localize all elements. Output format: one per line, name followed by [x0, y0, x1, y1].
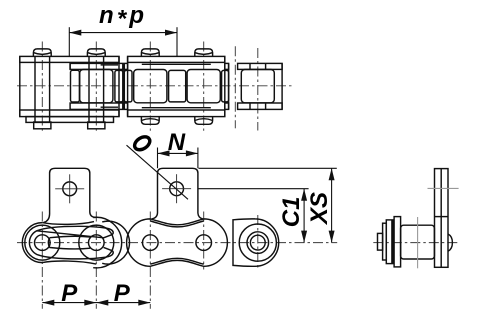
- svg-text:C1: C1: [278, 197, 305, 228]
- svg-text:N: N: [168, 129, 186, 156]
- pin 1 riveted end: [34, 122, 51, 129]
- end view roller: [401, 225, 435, 259]
- pin 1 centerline: [41, 42, 43, 131]
- pin 3 head top: [141, 49, 159, 57]
- pin 3 centerline: [149, 42, 151, 131]
- roller circle at pin 5: [239, 224, 276, 261]
- side view pin 1 centerline: [41, 212, 43, 309]
- side elevation view of chain with attachments: [17, 168, 337, 308]
- end view attachment plate strip: [435, 169, 449, 268]
- pin 1 head: [33, 49, 51, 57]
- inner link plate end arcs at pin 2: [93, 217, 121, 268]
- pin 4 head bottom: [195, 117, 213, 125]
- side view pin 3 centerline: [149, 212, 151, 309]
- end view inner plate top level line: [435, 216, 449, 218]
- cut inner link strips (top): [238, 63, 283, 69]
- pin hole at pin 5: [250, 235, 265, 250]
- end view attachment hole level line: [428, 187, 459, 189]
- dimension N line: [158, 152, 198, 154]
- pin 2 riveted end: [88, 122, 105, 129]
- bent attachment tab 1: [50, 168, 90, 214]
- roller at pin 5: [241, 70, 274, 103]
- end view chain width centerline: [417, 217, 419, 268]
- chain centerline (side view) and XS/C1 baseline: [17, 242, 337, 244]
- leader line for O: [127, 145, 189, 199]
- tab 2 left fillet: [152, 213, 158, 219]
- chain break line (top view): [234, 46, 236, 128]
- bushing gap box right of roller 4: [222, 70, 229, 102]
- inner plate strips module 1 (top): [70, 63, 123, 69]
- pin 4 centerline: [203, 42, 205, 131]
- outer link 1 end silhouette lines: [19, 56, 21, 116]
- roller at pin 3: [134, 70, 167, 103]
- connecting link cover plate: [26, 117, 114, 123]
- inner plate stub right module 2 (top/bottom): [225, 63, 229, 69]
- tab 1 left fillet: [44, 214, 50, 223]
- bushing circle at pin 5: [247, 232, 269, 254]
- bent attachment tab 2: [158, 168, 198, 213]
- side view pin 5 centerline: [257, 215, 259, 270]
- side view pin 2 centerline: [95, 212, 97, 309]
- side view pin 4 centerline: [203, 212, 205, 270]
- pin hole at pin 4: [196, 235, 212, 251]
- dimension n*p extension line left: [68, 27, 70, 56]
- pin hole at pin 1: [35, 235, 51, 251]
- dimension n*p line: [69, 32, 177, 34]
- end view pin axis centerline: [373, 242, 458, 244]
- svg-text:n*p: n*p: [99, 2, 147, 33]
- inner plate strips module 1 (bottom): [70, 103, 123, 109]
- dimension n*p extension line right: [176, 27, 178, 56]
- outer link 1 top plate bar: [20, 56, 119, 62]
- top plan view of roller chain: [17, 42, 292, 131]
- P dimension line: [42, 302, 150, 304]
- dimension N extension lines: [157, 148, 159, 169]
- end view pin left end cap: [378, 233, 383, 250]
- label O: [132, 134, 152, 152]
- end view pin right end bulge: [448, 234, 452, 251]
- svg-text:P: P: [61, 280, 78, 307]
- outer link 2 bottom plate bar: [128, 110, 225, 117]
- pin 1 body: [34, 56, 36, 122]
- connecting link plate top waist edge: [42, 222, 94, 225]
- roller circle at pin 1: [25, 225, 60, 260]
- inner plate stub left module 2 (top/bottom): [124, 63, 127, 69]
- pin hole at pin 3: [143, 235, 159, 251]
- roller at pin 4: [187, 70, 220, 103]
- inner link 2 chamfer lines along waists: [150, 221, 203, 227]
- svg-text:XS: XS: [306, 192, 333, 226]
- spring clip inner opening: [48, 236, 90, 249]
- bushing contour lines module 2: [142, 63, 211, 65]
- pin 2 body: [88, 56, 90, 122]
- spring clip of connecting link: [29, 226, 113, 259]
- pin hole at pin 2: [89, 235, 105, 251]
- XS dimension line: [331, 168, 333, 242]
- bushing gap box left of roller 3: [124, 70, 132, 102]
- outer link 1 bottom plate bar: [20, 110, 119, 117]
- end view of link with attachment: [373, 169, 458, 269]
- outer link 2 top plate bar: [128, 56, 225, 62]
- pin 2 head: [87, 49, 105, 57]
- attachment hole in tab 1: [63, 182, 77, 196]
- tab 1 right fillet: [90, 212, 96, 217]
- pin 2 centerline: [95, 42, 97, 131]
- pin 5 centerline (cut link): [257, 48, 259, 131]
- svg-text:P: P: [114, 280, 131, 307]
- pin 3 head bottom: [141, 117, 159, 125]
- cut inner link strips (bottom): [238, 103, 283, 109]
- cut inner link right end line: [281, 63, 283, 109]
- tab 2 right fillet: [198, 213, 203, 219]
- cut link piece outline: [233, 219, 279, 266]
- XS extension line (attachment top): [199, 167, 337, 169]
- bushing gap box between rollers 3 and 4: [169, 70, 186, 102]
- inner link 2 plate outline: [127, 219, 228, 266]
- roller at pin 2: [80, 70, 113, 103]
- attachment hole in tab 2: [170, 182, 184, 196]
- outer link 2 end silhouette lines: [127, 56, 129, 116]
- pin 4 head top: [195, 49, 213, 57]
- bushing gap box left of roller 2: [71, 70, 80, 102]
- end view outer plate left: [383, 223, 387, 260]
- end view inner plate left: [394, 217, 401, 267]
- C1 extension line (hole level): [199, 188, 309, 190]
- connecting link plate outline: [22, 223, 96, 265]
- pin 5 body lines in strip bands: [249, 63, 251, 69]
- C1 dimension line: [303, 189, 305, 243]
- end view middle plate left: [386, 220, 393, 264]
- inner plate end lines module 2: [123, 63, 125, 109]
- bushing contour lines module 1: [101, 64, 119, 66]
- roller circle at pin 2: [79, 225, 114, 260]
- bushing gap box right of roller 2: [115, 70, 123, 102]
- chain centerline (top view): [17, 85, 292, 87]
- inner plate end lines module 1: [69, 63, 71, 69]
